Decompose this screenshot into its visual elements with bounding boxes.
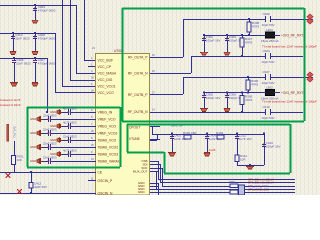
svg-text:instead of 22nF: instead of 22nF bbox=[0, 103, 21, 107]
svg-text:C307: C307 bbox=[263, 70, 271, 74]
svg-text:R402 18R: R402 18R bbox=[183, 131, 197, 135]
svg-text:10pF 50V: 10pF 50V bbox=[262, 23, 275, 27]
svg-text:10R: 10R bbox=[240, 157, 246, 161]
svg-text:VCC_BUF: VCC_BUF bbox=[98, 58, 114, 62]
svg-text:5: 5 bbox=[91, 116, 93, 119]
svg-text:22nF 0923: 22nF 0923 bbox=[15, 37, 30, 41]
svg-text:4u7F 16V: 4u7F 16V bbox=[239, 137, 252, 141]
svg-text:VREG_VCO: VREG_VCO bbox=[98, 124, 117, 128]
svg-text:10pF 50V: 10pF 50V bbox=[262, 60, 275, 64]
svg-text:7: 7 bbox=[91, 123, 93, 126]
svg-text:47R3: 47R3 bbox=[245, 40, 253, 44]
svg-text:47R3: 47R3 bbox=[251, 82, 259, 86]
svg-text:1u0F: 1u0F bbox=[209, 148, 216, 152]
svg-text:4u7F 0923: 4u7F 0923 bbox=[63, 148, 77, 152]
svg-text:TBIAS_VCO: TBIAS_VCO bbox=[98, 138, 117, 142]
svg-text:4u7F 0923: 4u7F 0923 bbox=[63, 106, 77, 110]
svg-text:R403: R403 bbox=[216, 131, 224, 135]
svg-text:C310: C310 bbox=[263, 105, 271, 109]
svg-text:TBIAS_VCO2: TBIAS_VCO2 bbox=[98, 145, 119, 149]
svg-text:TBIAS_VCO3: TBIAS_VCO3 bbox=[98, 152, 119, 156]
svg-text:OSCIN_N: OSCIN_N bbox=[98, 191, 113, 195]
svg-text:GND: GND bbox=[138, 190, 146, 194]
svg-text:TI eval board has 12nF instead: TI eval board has 12nF instead of 100pF bbox=[262, 45, 317, 49]
svg-text:3V3_PLL: 3V3_PLL bbox=[13, 126, 17, 139]
svg-text:C309: C309 bbox=[263, 12, 271, 16]
svg-text:10K: 10K bbox=[17, 158, 22, 162]
svg-text:22nF 0923: 22nF 0923 bbox=[43, 155, 57, 159]
svg-text:9: 9 bbox=[91, 151, 93, 154]
svg-text:+3V3_RF_RXTA: +3V3_RF_RXTA bbox=[281, 91, 306, 95]
svg-text:RF_OUTB_N: RF_OUTB_N bbox=[128, 110, 148, 114]
svg-text:21: 21 bbox=[92, 46, 95, 50]
svg-text:VCC_VCO1: VCC_VCO1 bbox=[98, 84, 116, 88]
svg-text:100pF 16V: 100pF 16V bbox=[206, 39, 221, 43]
svg-text:VREF_VCO: VREF_VCO bbox=[98, 117, 116, 121]
svg-text:3: 3 bbox=[91, 70, 93, 73]
svg-text:22nF 0923: 22nF 0923 bbox=[16, 62, 31, 66]
svg-text:18nH 250mA: 18nH 250mA bbox=[261, 39, 279, 43]
svg-text:CPOUT: CPOUT bbox=[129, 125, 140, 129]
svg-text:VCC_CP: VCC_CP bbox=[98, 65, 112, 69]
svg-text:TI eval board has 12nF instead: TI eval board has 12nF instead of 100pF bbox=[262, 100, 317, 104]
svg-text:4u8F 50V: 4u8F 50V bbox=[34, 185, 47, 189]
svg-text:28: 28 bbox=[91, 77, 94, 80]
svg-text:MUX_OUT: MUX_OUT bbox=[133, 169, 148, 173]
svg-text:TBIAS_VARAC: TBIAS_VARAC bbox=[98, 159, 121, 163]
svg-text:GND: GND bbox=[30, 131, 36, 135]
svg-text:L302: L302 bbox=[266, 85, 273, 89]
svg-text:CE: CE bbox=[98, 170, 103, 174]
svg-text:GND: GND bbox=[30, 117, 36, 121]
svg-text:22nF 0923: 22nF 0923 bbox=[43, 127, 57, 131]
svg-text:U701: U701 bbox=[114, 49, 122, 53]
svg-text:L303: L303 bbox=[266, 28, 273, 32]
svg-text:4u7F 0923: 4u7F 0923 bbox=[63, 120, 77, 124]
svg-text:6: 6 bbox=[91, 109, 93, 112]
svg-text:47R3: 47R3 bbox=[245, 98, 253, 102]
svg-text:4700pF 0603: 4700pF 0603 bbox=[38, 9, 56, 13]
svg-text:4700pF 0603: 4700pF 0603 bbox=[38, 37, 56, 41]
svg-text:10pF 50V: 10pF 50V bbox=[262, 116, 275, 120]
svg-text:GND: GND bbox=[30, 145, 36, 149]
svg-text:22nF 0923: 22nF 0923 bbox=[63, 134, 77, 138]
svg-text:14: 14 bbox=[152, 109, 155, 112]
svg-text:25: 25 bbox=[91, 144, 94, 147]
svg-text:RF_OUTA_P: RF_OUTA_P bbox=[128, 55, 148, 59]
svg-text:47R3: 47R3 bbox=[252, 24, 260, 28]
svg-text:VCC_VCO: VCC_VCO bbox=[98, 91, 115, 95]
svg-text:100pF 16V: 100pF 16V bbox=[266, 145, 281, 149]
svg-text:SPI_MOSI_SDI: SPI_MOSI_SDI bbox=[248, 187, 269, 191]
svg-text:VCC_MASH: VCC_MASH bbox=[98, 71, 117, 75]
svg-text:RF_OUTA_N: RF_OUTA_N bbox=[128, 71, 148, 75]
svg-text:2: 2 bbox=[91, 57, 93, 60]
svg-text:29: 29 bbox=[152, 70, 155, 73]
svg-text:+3V3_RF_RXTA: +3V3_RF_RXTA bbox=[281, 33, 306, 37]
svg-text:26: 26 bbox=[91, 130, 94, 133]
svg-text:VCC_DIG: VCC_DIG bbox=[98, 78, 113, 82]
svg-text:100pF 16V: 100pF 16V bbox=[206, 96, 221, 100]
svg-text:8: 8 bbox=[91, 137, 93, 140]
svg-text:GND: GND bbox=[30, 159, 36, 163]
svg-text:RF_OUTB_P: RF_OUTB_P bbox=[128, 93, 148, 97]
svg-text:22nF 0923: 22nF 0923 bbox=[43, 113, 57, 117]
svg-text:instead of 4u7F: instead of 4u7F bbox=[0, 98, 21, 102]
svg-text:VREG_IN: VREG_IN bbox=[98, 110, 113, 114]
svg-text:VTUNE: VTUNE bbox=[129, 137, 140, 141]
svg-text:30: 30 bbox=[152, 54, 155, 57]
svg-text:R801: R801 bbox=[229, 180, 236, 184]
svg-text:VREF_VCO2: VREF_VCO2 bbox=[98, 131, 118, 135]
svg-text:OSCIN_P: OSCIN_P bbox=[98, 179, 113, 183]
svg-text:C304: C304 bbox=[263, 49, 271, 53]
svg-text:4: 4 bbox=[91, 83, 93, 86]
svg-text:4700pF 0603: 4700pF 0603 bbox=[38, 62, 56, 66]
svg-text:22nF 0923: 22nF 0923 bbox=[43, 141, 57, 145]
svg-text:10: 10 bbox=[91, 158, 94, 161]
